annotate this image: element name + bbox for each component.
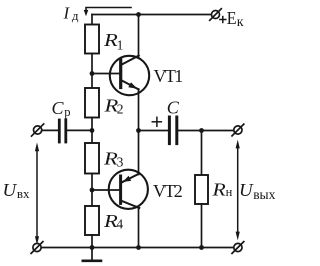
svg-text:2: 2 [117,102,124,117]
capacitor C [139,117,234,144]
ground [83,248,101,261]
svg-text:н: н [226,185,233,199]
resistor Rn [195,175,208,204]
terminal output top [232,124,244,136]
node (Rn bottom) [199,245,204,250]
svg-text:U: U [239,180,254,200]
transistor VT1 [110,56,149,96]
wire (left rail R1-R2) [91,54,93,89]
wire (VT2 base lead) [92,189,119,191]
svg-text:R: R [211,180,225,200]
current arrow I_d [84,8,131,17]
arrow U_vyx (output voltage) [236,140,240,241]
resistor R4 [85,206,99,235]
label I_d [63,3,79,23]
transistor VT2 [109,170,148,209]
label Cp [52,98,71,119]
wire (Rn bottom lead) [201,204,203,248]
label R2 [103,95,123,116]
svg-text:вх: вх [17,186,30,201]
resistor R2 [85,88,99,118]
wire (bottom rail) [41,247,234,249]
svg-text:вых: вых [253,187,275,202]
svg-text:C: C [52,98,65,118]
node (VT1 base) [90,71,95,76]
wire (R1 top lead) [91,15,93,25]
node (emitter junction / C) [136,128,141,133]
svg-text:E: E [227,8,237,28]
svg-text:C: C [167,98,180,118]
terminal output bottom [232,242,244,254]
wire (Rn top lead) [201,131,203,176]
svg-text:VT2: VT2 [153,181,182,201]
capacitor Cp [42,120,92,142]
svg-text:1: 1 [117,38,124,53]
svg-text:R: R [103,148,118,168]
node (VT2 base) [90,188,95,193]
wire (VT1 emitter vertical) [138,89,140,131]
node (Rn top) [199,128,204,133]
label +Ek [219,8,244,30]
svg-text:VT1: VT1 [154,66,183,86]
svg-text:3: 3 [117,155,124,170]
svg-text:д: д [72,8,79,23]
label R4 [103,211,124,231]
wire (left rail R2-R3) [91,118,93,144]
label R3 [103,148,124,169]
svg-text:р: р [64,105,70,119]
node (bottom rail / VT2) [136,245,141,250]
resistor R1 [85,25,99,54]
svg-text:U: U [3,180,18,200]
wire (top rail to +Ek) [92,14,212,16]
label R1 [103,30,124,52]
label U_vyx [239,180,276,202]
node (bottom rail / R4) [90,245,95,250]
terminal +Ek [210,9,222,21]
resistor R3 [85,143,99,174]
label U_vx [3,180,31,201]
node (top rail / VT1 collector) [136,12,141,17]
wire (R4 bottom lead) [91,235,93,248]
wire (VT1 base lead) [92,73,119,75]
svg-text:4: 4 [116,216,123,231]
svg-text:R: R [103,30,118,50]
terminal input [32,124,44,136]
svg-text:к: к [237,15,244,30]
wire (VT2 emitter vertical) [138,131,140,175]
node (input / Cp) [90,128,95,133]
wire (VT2 collector vertical) [138,207,140,248]
plus sign (C polarity) [152,117,161,126]
arrow U_vx (input voltage) [35,142,39,244]
wire (left rail R3-R4) [91,174,93,207]
label Rn [211,180,232,200]
terminal input bottom [31,242,43,254]
wire (VT1 collector vertical) [138,15,140,57]
